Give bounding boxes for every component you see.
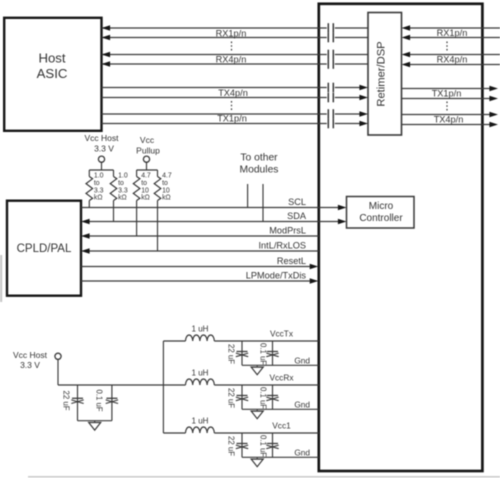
wire 22uF cap leg (VccRx) — [241, 385, 243, 409]
svg-text:Modules: Modules — [240, 165, 279, 176]
IC U_mc Micro Controller box — [347, 197, 415, 229]
capacitor AC-coupling on TX1p — [328, 109, 333, 119]
wire 22uF cap leg (VccTx) — [241, 341, 243, 365]
wire TX4n media segment — [402, 124, 490, 126]
svg-text:TX4p/n: TX4p/n — [218, 88, 248, 98]
wire branch VccTx pre-inductor — [163, 340, 185, 342]
wire RX1n host segment — [102, 37, 327, 39]
wire Vcc Pullup stem — [146, 162, 148, 170]
capacitor bulk 0.1 uF — [106, 398, 118, 403]
arrow outwards on media TX1n — [489, 96, 498, 102]
svg-text:RX4p/n: RX4p/n — [437, 54, 468, 64]
inductor L3 1 uH (Vcc1) — [186, 427, 215, 433]
svg-text:Micro: Micro — [369, 201, 394, 212]
svg-text:Gnd: Gnd — [294, 448, 310, 458]
wire rail Vcc Pullup to R3 R4 — [137, 169, 158, 171]
svg-text:0.1 uF: 0.1 uF — [259, 343, 268, 365]
wire RX4n retimer segment — [335, 63, 368, 65]
capacitor 22 uF (Vcc1) — [236, 444, 248, 449]
scan artifact left edge — [0, 255, 2, 302]
capacitor AC-coupling on TX1n — [328, 119, 333, 129]
ground symbol (VccRx) — [251, 409, 263, 418]
wire SDA — [89, 221, 339, 223]
svg-text:1 uH: 1 uH — [192, 417, 209, 426]
wire resistor R2 bottom lead — [113, 201, 115, 222]
arrow ResetL into module — [310, 264, 319, 270]
arrow into Retimer on media RX1n — [402, 35, 411, 41]
arrow SCL into Micro Controller — [338, 205, 347, 211]
wire TX4n host segment — [102, 97, 327, 99]
svg-text:0.1 uF: 0.1 uF — [95, 389, 104, 411]
wire LPMode/TxDis — [81, 280, 310, 282]
capacitor AC-coupling on TX4p — [328, 83, 333, 93]
resistor R3 (4.7 to 10 kOhm) — [133, 177, 140, 201]
wire resistor R3 bottom lead — [136, 201, 138, 237]
wire 22uF cap leg (Vcc1) — [241, 433, 243, 457]
wire branch Vcc1 post-inductor — [214, 432, 318, 434]
svg-text:To other: To other — [240, 153, 278, 164]
svg-text:22 uF: 22 uF — [227, 436, 236, 456]
arrow into Retimer on media RX1p — [402, 25, 411, 31]
capacitor bulk 22 uF — [71, 398, 83, 403]
arrow into Retimer on TX4p — [359, 85, 368, 91]
wire TX1n retimer segment — [335, 123, 360, 125]
wire resistor R4 top lead — [157, 170, 159, 177]
terminal Vcc Host power — [55, 353, 61, 359]
svg-text:3.3: 3.3 — [94, 187, 104, 194]
wire rail Vcc Host to R1 R2 — [89, 169, 113, 171]
wire Vcc Host stem — [101, 162, 103, 170]
wire RX1p retimer segment — [335, 27, 368, 29]
wire resistor R4 bottom lead — [157, 201, 159, 252]
wire power drop from terminal — [57, 359, 59, 385]
resistor R4 (4.7 to 10 kOhm) — [154, 177, 161, 201]
svg-text:Controller: Controller — [359, 213, 403, 224]
wire RX4n media segment — [410, 64, 500, 66]
arrow outwards on media TX4n — [489, 122, 498, 128]
wire RX1p media segment — [410, 27, 500, 29]
arrow into Host ASIC on RX1p — [102, 25, 111, 31]
svg-text:RX1p/n: RX1p/n — [437, 28, 468, 38]
wire power bus vertical — [162, 341, 164, 433]
capacitor AC-coupling on TX4n — [328, 93, 333, 103]
svg-text:TX1p/n: TX1p/n — [217, 114, 247, 124]
capacitor AC-coupling on RX1p — [328, 23, 333, 33]
wire RX4n host segment — [102, 63, 327, 65]
svg-text:22 uF: 22 uF — [227, 344, 236, 364]
ellipsis dots TX media side — [446, 102, 448, 113]
arrow SDA into Micro Controller — [338, 219, 347, 225]
svg-text:kΩ: kΩ — [94, 195, 103, 202]
arrow ModPrsL into CPLD — [81, 233, 90, 239]
wire TX4p host segment — [102, 87, 327, 89]
terminal Vcc Pullup — [143, 156, 149, 162]
svg-text:Retimer/DSP: Retimer/DSP — [376, 41, 388, 106]
capacitor 0.1 uF (VccTx) — [266, 352, 278, 357]
arrow into Retimer on TX1n — [359, 121, 368, 127]
arrow into Retimer on TX1p — [359, 111, 368, 117]
svg-text:10: 10 — [162, 187, 170, 194]
svg-text:0.1 uF: 0.1 uF — [259, 435, 268, 457]
wire branch VccRx post-inductor — [214, 384, 318, 386]
svg-text:TX1p/n: TX1p/n — [432, 88, 462, 98]
arrow outwards on media TX4p — [489, 112, 498, 118]
wire branch VccRx pre-inductor — [163, 384, 185, 386]
module outline (QSFP module boundary) — [319, 4, 483, 471]
wire TX4n retimer segment — [335, 97, 360, 99]
svg-text:1 uH: 1 uH — [192, 369, 209, 378]
wire TX4p media segment — [402, 114, 490, 116]
arrow into Host ASIC on RX4n — [102, 61, 111, 67]
svg-text:VccRx: VccRx — [270, 373, 295, 383]
svg-text:1.0: 1.0 — [94, 173, 104, 180]
wire TX1p media segment — [402, 88, 490, 90]
wire Gnd rail (VccTx) — [242, 364, 319, 366]
wire bulk Gnd rail — [78, 420, 112, 422]
wire Gnd rail (VccRx) — [242, 408, 319, 410]
capacitor 22 uF (VccTx) — [236, 352, 248, 357]
wire 0.1uF cap leg (VccTx) — [272, 341, 274, 365]
svg-text:Vcc Host: Vcc Host — [84, 133, 119, 143]
svg-text:Vcc: Vcc — [140, 135, 155, 145]
IC U_ret Retimer/DSP box — [368, 13, 402, 136]
svg-text:to: to — [162, 180, 168, 187]
inductor L1 1 uH (VccTx) — [186, 335, 215, 341]
wire ModPrsL — [89, 235, 319, 237]
wire Gnd rail (Vcc1) — [242, 456, 319, 458]
arrow SDA into CPLD — [81, 219, 90, 225]
wire 0.1uF cap leg (VccRx) — [272, 385, 274, 409]
wire resistor R2 top lead — [113, 170, 115, 177]
ground symbol (bulk caps) — [89, 421, 101, 430]
arrow IntL/RxLOS into CPLD — [81, 248, 90, 254]
wire RX4p retimer segment — [335, 54, 368, 56]
terminal Vcc Host — [98, 156, 104, 162]
wire TX4p retimer segment — [335, 87, 360, 89]
svg-text:CPLD/PAL: CPLD/PAL — [17, 243, 72, 255]
wire TX1n media segment — [402, 98, 490, 100]
IC U_host Host ASIC box — [4, 18, 101, 131]
wire RX1n media segment — [410, 37, 500, 39]
svg-text:TX4p/n: TX4p/n — [434, 114, 464, 124]
capacitor 0.1 uF (Vcc1) — [266, 444, 278, 449]
wire RX1n retimer segment — [335, 37, 368, 39]
capacitor AC-coupling on RX4p — [328, 50, 333, 60]
wire RX4p host segment — [102, 54, 327, 56]
svg-text:0.1 uF: 0.1 uF — [259, 387, 268, 409]
resistor R2 (1.0 to 3.3 kOhm) — [110, 177, 117, 201]
capacitor AC-coupling on RX4n — [328, 59, 333, 69]
svg-text:Pullup: Pullup — [136, 146, 160, 156]
ellipsis dots RX host side — [231, 42, 233, 53]
wire branch VccTx post-inductor — [214, 340, 318, 342]
svg-text:22 uF: 22 uF — [227, 388, 236, 408]
svg-text:kΩ: kΩ — [141, 195, 150, 202]
arrow into Retimer on media RX4p — [402, 52, 411, 58]
wire IntL/RxLOS — [89, 250, 319, 252]
svg-text:Host: Host — [38, 51, 65, 66]
wire RX4p media segment — [410, 54, 500, 56]
wire bulk 0.1uF cap leg — [111, 385, 113, 421]
wire 0.1uF cap leg (Vcc1) — [272, 433, 274, 457]
wire ResetL — [81, 266, 310, 268]
svg-text:3.3 V: 3.3 V — [20, 360, 40, 370]
capacitor 22 uF (VccRx) — [236, 396, 248, 401]
resistor R1 (1.0 to 3.3 kOhm) — [86, 177, 93, 201]
wire branch Vcc1 pre-inductor — [163, 432, 185, 434]
ground symbol (Vcc1) — [251, 457, 263, 466]
wire RX1p host segment — [102, 27, 327, 29]
svg-text:to: to — [141, 180, 147, 187]
capacitor AC-coupling on RX1n — [328, 33, 333, 43]
svg-text:Vcc Host: Vcc Host — [13, 350, 48, 360]
svg-text:3.3 V: 3.3 V — [94, 144, 114, 154]
arrow into Retimer on TX4n — [359, 95, 368, 101]
arrow into Host ASIC on RX4p — [102, 52, 111, 58]
wire TX1n host segment — [102, 123, 327, 125]
wire stub to other modules SDA — [262, 184, 264, 222]
wire resistor R1 bottom lead — [88, 201, 90, 208]
svg-text:SCL: SCL — [288, 197, 306, 207]
wire bulk 22uF cap leg — [77, 385, 79, 421]
svg-text:RX1p/n: RX1p/n — [216, 28, 247, 38]
wire SCL — [81, 207, 339, 209]
svg-text:Gnd: Gnd — [294, 400, 310, 410]
svg-text:VccTx: VccTx — [270, 329, 294, 339]
wire resistor R3 top lead — [136, 170, 138, 177]
svg-text:Vcc1: Vcc1 — [272, 421, 291, 431]
ellipsis dots RX media side — [446, 42, 448, 52]
svg-text:to: to — [118, 180, 124, 187]
capacitor 0.1 uF (VccRx) — [266, 396, 278, 401]
svg-text:IntL/RxLOS: IntL/RxLOS — [259, 241, 307, 251]
svg-text:RX4p/n: RX4p/n — [216, 54, 247, 64]
ground symbol (VccTx) — [251, 365, 263, 374]
svg-text:4.7: 4.7 — [141, 173, 151, 180]
svg-text:LPMode/TxDis: LPMode/TxDis — [246, 271, 307, 281]
arrow into Host ASIC on RX1n — [102, 35, 111, 41]
inductor L2 1 uH (VccRx) — [186, 379, 215, 385]
svg-text:1.0: 1.0 — [118, 173, 128, 180]
svg-text:3.3: 3.3 — [118, 187, 128, 194]
svg-text:10: 10 — [141, 187, 149, 194]
svg-text:to: to — [94, 180, 100, 187]
svg-text:kΩ: kΩ — [118, 195, 127, 202]
svg-text:ResetL: ResetL — [277, 256, 306, 266]
svg-text:ModPrsL: ModPrsL — [269, 226, 306, 236]
svg-text:SDA: SDA — [287, 211, 307, 221]
wire resistor R1 top lead — [88, 170, 90, 177]
wire TX1p host segment — [102, 113, 327, 115]
ellipsis dots TX host side — [231, 101, 233, 112]
IC U_cpld CPLD/PAL box — [7, 201, 81, 296]
arrow LPMode/TxDis into module — [310, 278, 319, 284]
svg-text:Gnd: Gnd — [294, 356, 310, 366]
wire power feed horizontal — [58, 384, 163, 386]
svg-text:ASIC: ASIC — [37, 66, 68, 81]
wire stub to other modules SCL — [247, 184, 249, 208]
wire TX1p retimer segment — [335, 113, 360, 115]
svg-text:4.7: 4.7 — [162, 173, 172, 180]
arrow into Retimer on media RX4n — [402, 62, 411, 68]
svg-text:kΩ: kΩ — [162, 195, 171, 202]
svg-text:22 uF: 22 uF — [62, 391, 71, 411]
arrow outwards on media TX1p — [489, 86, 498, 92]
scan artifact bottom edge — [28, 476, 500, 478]
svg-text:1 uH: 1 uH — [192, 325, 209, 334]
